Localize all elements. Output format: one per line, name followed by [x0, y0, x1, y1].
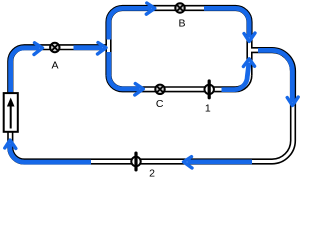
arrow A4 right, before lamp C — [135, 84, 144, 95]
wire blue: right T out, corner, down right edge to arrow A7 — [258, 50, 292, 102]
arrow A1 right, before lamp A — [34, 43, 43, 55]
wire blue: bottom left segment over corner up to arrow A9 — [10, 144, 91, 163]
svg-text:C: C — [156, 98, 164, 110]
wire: left edge up and top-left horizontal to node J1 (outer) — [10, 47, 108, 147]
lamp C — [155, 85, 164, 94]
wire: node J2 out, right edge down and bottom return (outer) — [10, 50, 293, 161]
wire: outer loop and branches (black outer pipe) — [10, 8, 293, 162]
lamp B — [175, 3, 184, 12]
wire: middle parallel branch (inner channel) — [109, 75, 250, 89]
arrow A2 right, into left T — [98, 43, 107, 55]
wire blue: right of lamp A to left T — [74, 45, 103, 50]
battery (cell with arrow) — [4, 93, 18, 132]
wire: inner white channel — [10, 8, 293, 162]
current flow blue segments — [10, 8, 293, 162]
arrow A9 up, into battery from below — [5, 140, 16, 149]
arrow A7 down, on right edge — [287, 97, 298, 106]
meter 1 — [205, 81, 214, 98]
svg-text:1: 1 — [205, 102, 211, 114]
wire: node J2 out, right edge and bottom return (inner channel) — [10, 50, 293, 161]
wire blue: left T up, corner, top branch to arrow A3 — [109, 8, 152, 39]
meter 2 — [131, 153, 140, 170]
arrow A3 right, on top branch — [146, 3, 155, 14]
wire blue: right of meter 1, corner up to arrow A5 — [222, 63, 250, 90]
wire blue: right of lamp B, corner down to arrow A6 — [204, 8, 249, 37]
svg-text:B: B — [178, 18, 185, 30]
wire: top parallel branch (inner channel) — [109, 8, 250, 75]
svg-text:2: 2 — [149, 167, 155, 178]
wire: left edge up and top-left horizontal to node J1 (inner channel) — [10, 47, 108, 147]
arrow A5 up, into right T from below — [243, 59, 254, 67]
arrowheads — [5, 3, 298, 168]
arrow A8 left, on bottom wire — [184, 157, 193, 168]
lamp A — [50, 43, 59, 52]
wire: middle parallel branch through lamp C and meter 1 (outer) — [109, 75, 250, 89]
svg-text:A: A — [51, 59, 58, 71]
wire blue: battery top up over corner to arrow A1 — [11, 48, 39, 93]
wire blue: bottom right segment to arrow A8 — [187, 159, 252, 164]
wire blue: left T down, corner, middle branch to arrow A4 — [109, 52, 140, 89]
arrow A6 down, into right T from above — [244, 33, 255, 42]
wire: top parallel branch through lamp B (outer) — [109, 8, 250, 75]
